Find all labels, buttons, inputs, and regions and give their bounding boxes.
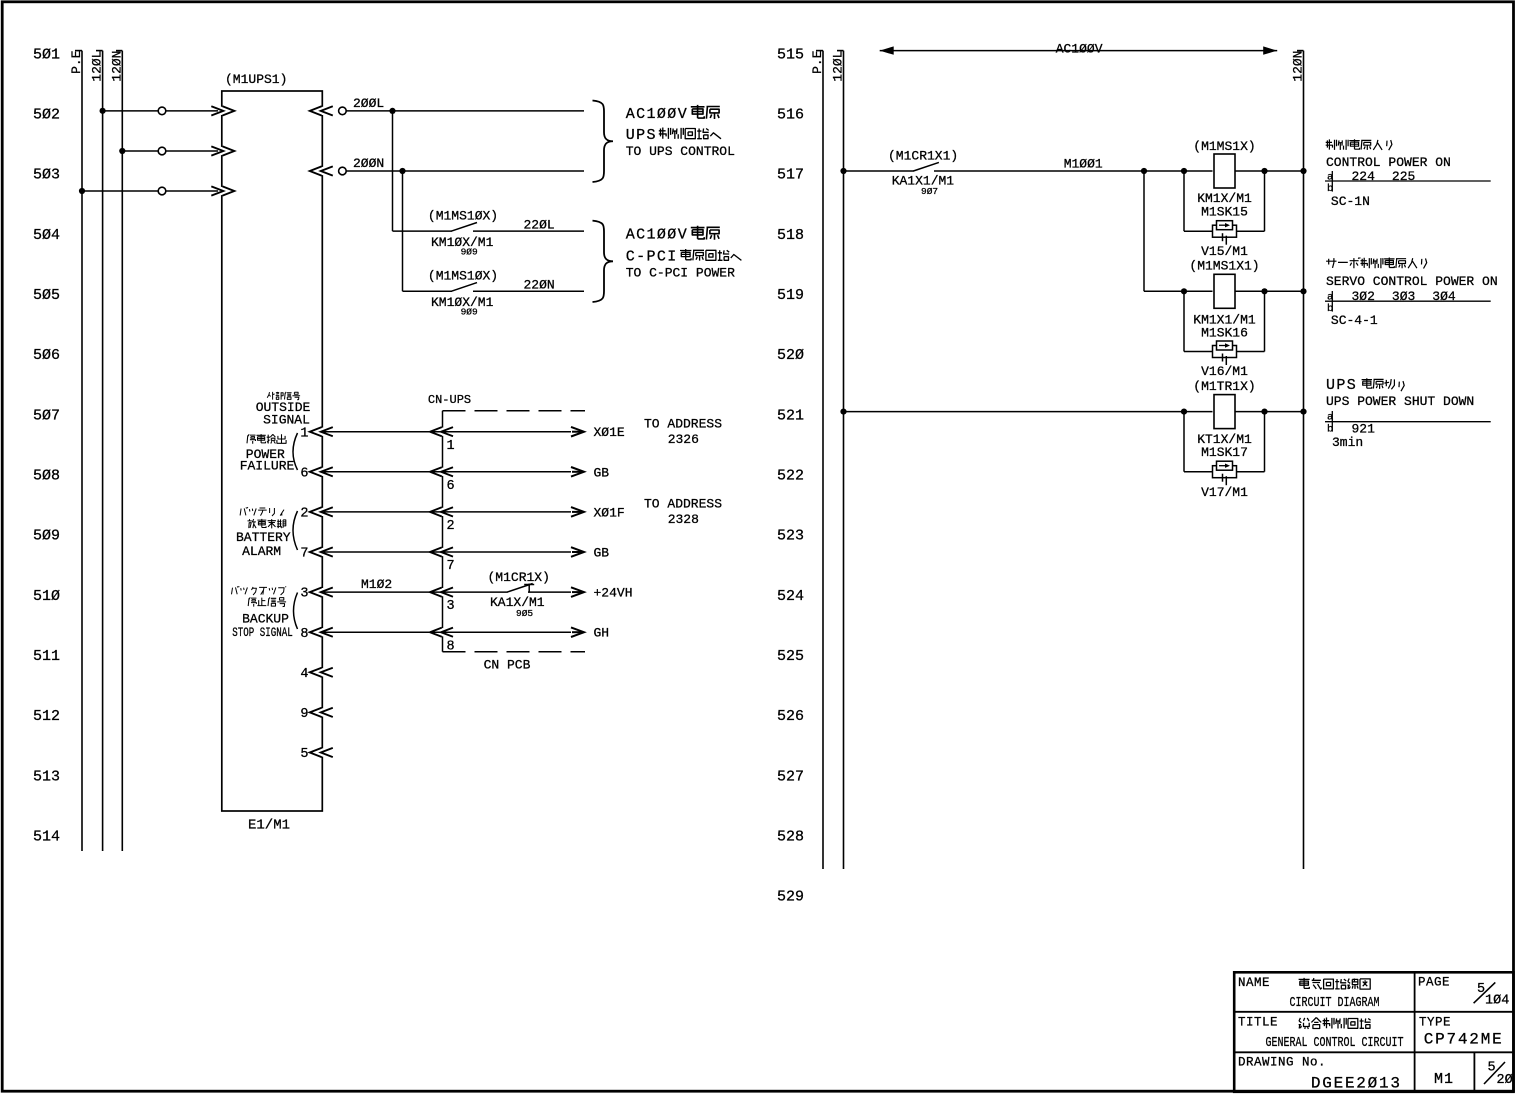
svg-text:5Ø8: 5Ø8: [33, 468, 60, 485]
contact M1MS10X lower (KM10X/M1): [403, 268, 499, 317]
svg-text:512: 512: [33, 708, 60, 725]
svg-text:SERVO CONTROL POWER ON: SERVO CONTROL POWER ON: [1326, 274, 1498, 289]
arrow into UPS mid: [221, 147, 224, 155]
net P.E left rail: [69, 50, 84, 851]
brace C-PCI power: [593, 221, 614, 302]
svg-text:12ØL: 12ØL: [831, 51, 846, 82]
svg-text:529: 529: [777, 889, 804, 906]
pin 2 signal wire to X01F: [443, 505, 625, 520]
svg-text:3Ø4: 3Ø4: [1432, 289, 1456, 304]
svg-text:225: 225: [1392, 169, 1415, 184]
UPS pin 2 wire: [300, 507, 454, 535]
svg-text:2ØØL: 2ØØL: [353, 96, 384, 111]
svg-text:TYPE: TYPE: [1419, 1015, 1451, 1029]
svg-text:2326: 2326: [668, 432, 699, 447]
svg-text:TO UPS CONTROL: TO UPS CONTROL: [626, 144, 735, 159]
svg-text:TO C-PCI POWER: TO C-PCI POWER: [626, 266, 735, 281]
svg-text:P.E: P.E: [810, 50, 825, 74]
svg-text:6: 6: [300, 466, 308, 481]
label AC100V power to UPS control: [626, 105, 720, 123]
wire 200N branch down: [402, 171, 404, 291]
svg-text:AC1ØØV: AC1ØØV: [1056, 41, 1103, 56]
svg-text:1Ø4: 1Ø4: [1485, 994, 1509, 1009]
svg-text:7: 7: [447, 559, 455, 574]
svg-text:AC1ØØV: AC1ØØV: [626, 106, 688, 123]
UPS pin 3 wire: [300, 587, 454, 615]
surge suppressor V15/M1: [1184, 171, 1265, 231]
svg-text:522: 522: [777, 468, 804, 485]
pin 6 signal wire to GB: [443, 465, 610, 480]
net 120N right rail: [1290, 51, 1305, 870]
title block PAGE cell: [1418, 975, 1509, 1008]
svg-text:V15/M1: V15/M1: [1201, 244, 1248, 259]
svg-text:UPS: UPS: [626, 127, 657, 144]
svg-text:STOP SIGNAL: STOP SIGNAL: [232, 625, 292, 640]
svg-text:524: 524: [777, 588, 804, 605]
svg-text:514: 514: [33, 828, 60, 845]
annotation UPS power shut down: [1325, 377, 1491, 450]
net 120N left rail: [109, 51, 124, 852]
wire 220L: [473, 218, 584, 233]
svg-text:FAILURE: FAILURE: [240, 459, 295, 474]
svg-text:DGEE2Ø13: DGEE2Ø13: [1311, 1075, 1402, 1093]
UPS pin 6 wire: [300, 466, 454, 494]
svg-text:22ØL: 22ØL: [524, 218, 555, 233]
svg-text:3Ø3: 3Ø3: [1392, 289, 1415, 304]
annotation servo control power on: [1325, 258, 1498, 329]
label TO ADDRESS 2328: [644, 497, 722, 528]
svg-text:22ØN: 22ØN: [524, 278, 555, 293]
svg-text:5Ø3: 5Ø3: [33, 167, 60, 184]
svg-text:9Ø9: 9Ø9: [461, 247, 478, 258]
contact M1MS10X upper (KM10X/M1): [393, 208, 499, 257]
net 120L left rail: [90, 51, 105, 852]
svg-text:GB: GB: [594, 465, 610, 480]
svg-text:TO ADDRESS: TO ADDRESS: [644, 497, 722, 512]
svg-text:516: 516: [777, 107, 804, 124]
svg-text:(M1CR1X1): (M1CR1X1): [888, 149, 958, 164]
UPS output 200L: [310, 96, 584, 116]
svg-text:9Ø9: 9Ø9: [461, 307, 478, 318]
svg-text:C-PCI: C-PCI: [626, 249, 678, 266]
svg-text:528: 528: [777, 828, 804, 845]
label outside signal: [256, 392, 311, 428]
branch wire to rung 519: [1143, 171, 1145, 291]
svg-text:UPS: UPS: [1326, 377, 1357, 394]
svg-text:5Ø7: 5Ø7: [33, 407, 60, 424]
svg-text:CIRCUIT DIAGRAM: CIRCUIT DIAGRAM: [1290, 996, 1380, 1011]
UPS pin 5 stub: [300, 747, 332, 762]
svg-text:(M1MS1ØX): (M1MS1ØX): [428, 208, 498, 223]
svg-text:XØ1E: XØ1E: [594, 425, 625, 440]
title block TITLE cell: [1238, 1015, 1404, 1051]
svg-text:SC-1N: SC-1N: [1331, 194, 1370, 209]
svg-text:TO ADDRESS: TO ADDRESS: [644, 417, 722, 432]
svg-text:M1: M1: [1434, 1071, 1454, 1088]
svg-text:9Ø5: 9Ø5: [516, 608, 533, 619]
svg-text:V16/M1: V16/M1: [1201, 364, 1248, 379]
label backup stop signal: [232, 586, 298, 640]
svg-text:XØ1F: XØ1F: [594, 505, 625, 520]
svg-text:12ØL: 12ØL: [90, 51, 105, 82]
svg-text:4: 4: [300, 667, 308, 682]
svg-text:12ØN: 12ØN: [109, 51, 124, 82]
svg-text:GB: GB: [594, 546, 610, 561]
svg-text:UPS POWER SHUT DOWN: UPS POWER SHUT DOWN: [1326, 394, 1474, 409]
wire 200L branch down: [392, 111, 394, 231]
title block NAME cell: [1238, 976, 1380, 1011]
svg-text:M1ØØ1: M1ØØ1: [1064, 157, 1103, 172]
svg-text:12ØN: 12ØN: [1290, 51, 1305, 82]
pin 8 signal wire to GH: [443, 626, 610, 641]
UPS unit E1/M1 block outline: [222, 91, 322, 811]
pin 7 signal wire to GB: [443, 546, 610, 561]
label AC100V power to C-PCI: [626, 226, 720, 244]
svg-text:M1SK16: M1SK16: [1201, 326, 1248, 341]
UPS pin 7 wire: [300, 547, 454, 575]
svg-text:2Ø: 2Ø: [1497, 1073, 1513, 1088]
svg-text:523: 523: [777, 528, 804, 545]
AC100V span arrow: [880, 41, 1277, 56]
label TO ADDRESS 2326: [644, 417, 722, 448]
svg-text:GH: GH: [594, 626, 610, 641]
rung 519 wire: [1144, 288, 1213, 294]
svg-text:8: 8: [300, 627, 308, 642]
svg-text:(M1TR1X): (M1TR1X): [1193, 379, 1255, 394]
svg-text:3Ø2: 3Ø2: [1352, 289, 1375, 304]
UPS pin 9 stub: [300, 707, 332, 722]
net P.E right rail: [810, 50, 825, 869]
wire coil1 to 120N: [1235, 168, 1307, 174]
arrow into UPS P.E: [221, 187, 224, 195]
svg-text:9Ø7: 9Ø7: [921, 186, 938, 197]
svg-text:521: 521: [777, 407, 804, 424]
svg-text:5: 5: [300, 747, 308, 762]
svg-text:ALARM: ALARM: [242, 544, 281, 559]
svg-text:2ØØN: 2ØØN: [353, 156, 384, 171]
UPS pin 8 wire: [300, 627, 454, 655]
svg-text:E1/M1: E1/M1: [248, 817, 290, 833]
svg-text:51Ø: 51Ø: [33, 588, 60, 605]
label battery alarm: [236, 507, 298, 559]
svg-text:(M1MS1ØX): (M1MS1ØX): [428, 268, 498, 283]
pin 1 signal wire to X01E: [443, 425, 625, 440]
svg-text:2: 2: [300, 507, 308, 522]
svg-text:+24VH: +24VH: [594, 586, 633, 601]
svg-text:9: 9: [300, 707, 308, 722]
rung 517 wire: [840, 168, 914, 174]
net 120L right rail: [831, 51, 846, 870]
wire 220N: [473, 278, 584, 293]
svg-text:5: 5: [1477, 982, 1485, 997]
svg-text:52Ø: 52Ø: [777, 347, 804, 364]
brace UPS control: [593, 101, 614, 183]
svg-text:1: 1: [447, 439, 455, 454]
relay coil M1MS1X (KM1X/M1): [1193, 139, 1255, 220]
UPS output 200N: [310, 156, 584, 176]
svg-text:M1Ø2: M1Ø2: [361, 577, 392, 592]
svg-text:3: 3: [300, 587, 308, 602]
svg-text:5Ø4: 5Ø4: [33, 227, 60, 244]
UPS pin 1 wire: [300, 426, 454, 454]
svg-text:CN PCB: CN PCB: [484, 658, 531, 673]
label power failure: [240, 433, 298, 474]
wire M1001: [934, 157, 1213, 174]
svg-text:SC-4-1: SC-4-1: [1331, 313, 1378, 328]
svg-text:CONTROL POWER ON: CONTROL POWER ON: [1326, 155, 1451, 170]
svg-text:525: 525: [777, 648, 804, 665]
svg-text:M1SK15: M1SK15: [1201, 205, 1248, 220]
svg-text:5Ø9: 5Ø9: [33, 528, 60, 545]
svg-text:526: 526: [777, 708, 804, 725]
svg-text:b: b: [1327, 424, 1333, 436]
svg-text:M1SK17: M1SK17: [1201, 445, 1248, 460]
svg-text:PAGE: PAGE: [1418, 975, 1450, 989]
svg-text:DRAWING No.: DRAWING No.: [1238, 1055, 1326, 1069]
wire coil2 to 120N: [1235, 288, 1307, 294]
svg-text:5Ø5: 5Ø5: [33, 287, 60, 304]
pin 3 signal wire to +24VH: [443, 584, 633, 601]
svg-text:5Ø2: 5Ø2: [33, 107, 60, 124]
title block TYPE cell: [1419, 1015, 1504, 1048]
wire 120L to UPS pin row 502: [100, 107, 219, 115]
svg-text:(M1CR1X): (M1CR1X): [488, 570, 550, 585]
svg-text:3min: 3min: [1332, 435, 1363, 450]
svg-text:(M1UPS1): (M1UPS1): [225, 72, 287, 87]
svg-text:NAME: NAME: [1238, 976, 1270, 990]
title block DRAWING No cell: [1238, 1055, 1402, 1092]
svg-text:3: 3: [447, 599, 455, 614]
row numbers 501-514: [33, 46, 60, 845]
annotation control power on: [1325, 139, 1491, 209]
svg-text:2: 2: [447, 519, 455, 534]
svg-text:6: 6: [447, 479, 455, 494]
svg-text:5Ø1: 5Ø1: [33, 46, 60, 63]
svg-text:(M1MS1X1): (M1MS1X1): [1189, 259, 1259, 274]
rung 521 wire: [840, 409, 1212, 415]
title block outline: [1234, 972, 1513, 1092]
wire 120N to UPS: [119, 147, 218, 155]
svg-text:CP742ME: CP742ME: [1424, 1030, 1504, 1048]
svg-text:TITLE: TITLE: [1238, 1015, 1278, 1029]
svg-text:(M1MS1X): (M1MS1X): [1193, 139, 1255, 154]
contact M1CR1X1 (KA1X1/M1): [888, 149, 958, 197]
surge suppressor V17/M1: [1184, 412, 1265, 472]
svg-text:SIGNAL: SIGNAL: [263, 413, 310, 428]
svg-text:519: 519: [777, 287, 804, 304]
svg-text:511: 511: [33, 648, 60, 665]
svg-text:527: 527: [777, 768, 804, 785]
wire P.E to UPS: [79, 187, 218, 195]
svg-text:515: 515: [777, 46, 804, 63]
svg-text:AC1ØØV: AC1ØØV: [626, 227, 688, 244]
wire coil3 to 120N: [1235, 409, 1307, 415]
surge suppressor V16/M1: [1184, 291, 1265, 351]
svg-text:2328: 2328: [668, 512, 699, 527]
svg-text:517: 517: [777, 167, 804, 184]
title block sheet 5/20: [1484, 1061, 1513, 1089]
svg-text:1: 1: [300, 426, 308, 441]
connector CN-UPS rail: [428, 393, 585, 652]
relay coil M1MS1X1 (KM1X1/M1): [1189, 259, 1259, 341]
svg-text:5Ø6: 5Ø6: [33, 347, 60, 364]
arrow into UPS row 502: [221, 107, 224, 115]
timer coil M1TR1X (KT1X/M1): [1193, 379, 1255, 460]
svg-text:V17/M1: V17/M1: [1201, 485, 1248, 500]
svg-text:GENERAL CONTROL CIRCUIT: GENERAL CONTROL CIRCUIT: [1266, 1036, 1404, 1051]
svg-text:513: 513: [33, 768, 60, 785]
svg-text:7: 7: [300, 547, 308, 562]
row numbers 515-529: [777, 46, 804, 905]
svg-text:8: 8: [447, 639, 455, 654]
UPS pin 4 stub: [300, 667, 332, 682]
connector CN PCB bottom rail: [443, 652, 586, 673]
svg-text:518: 518: [777, 227, 804, 244]
contact M1CR1X labels (KA1X/M1): [361, 570, 550, 619]
svg-text:P.E: P.E: [69, 50, 84, 74]
svg-text:CN-UPS: CN-UPS: [428, 393, 471, 407]
svg-text:224: 224: [1352, 169, 1376, 184]
